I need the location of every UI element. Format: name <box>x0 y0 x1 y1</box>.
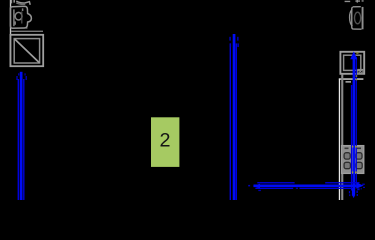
icon U2 (top-right device, cropped by top edge) <box>345 0 364 29</box>
middle blue bundle: wire (thin left line) <box>230 43 231 200</box>
small dash below west arrowhead <box>258 190 261 191</box>
horizontal bundle: wire (thin top segment 1) <box>257 182 294 183</box>
gray lifeline (right, vertical) <box>341 74 343 200</box>
box with diagonal (left component symbol) <box>10 35 43 66</box>
left blue bundle: wire (thin right line) <box>23 79 24 200</box>
detached dash left of west arrowhead <box>248 185 250 187</box>
right blue bundle: wire (thin right line) <box>356 57 357 189</box>
horizontal bundle: wire (thin bottom segment 1) <box>255 188 293 189</box>
left arrowhead inner side marks <box>18 73 19 75</box>
right lower box (grid component, gray filled) <box>342 146 364 174</box>
svg-text:2: 2 <box>159 130 170 152</box>
separator line under icon U1 <box>11 31 43 32</box>
yellow fringe at lower box top edge crossing <box>352 146 353 148</box>
left blue bundle: wire (thin left line) <box>18 79 20 200</box>
right bundle down arrowhead barb dashes <box>349 191 350 193</box>
right blue bundle: wire (thin left line) <box>351 85 352 191</box>
horizontal bundle west filled arrowhead <box>253 184 260 189</box>
right blue bundle: wire (thick shaft) <box>353 57 356 195</box>
icon U1 (top-left device, cropped by top edge) <box>10 0 31 29</box>
right bundle down arrow tip <box>352 188 355 196</box>
left blue bundle: wire (thick shaft, arrow up) <box>20 72 23 200</box>
horizontal blue bundle: wire (thick middle) <box>254 185 357 188</box>
bright left edge line (top-left column) <box>10 0 11 67</box>
yellow speck near upper box arrowhead <box>356 52 358 54</box>
middle arrowhead lower side dashes <box>230 43 231 47</box>
yellow fringe at lower box bottom edge crossing <box>352 172 353 174</box>
white bracket horizontal line <box>339 78 364 79</box>
yellow specks at white line crossing <box>356 75 358 77</box>
horizontal bundle: wire (thin top segment 2) <box>325 182 359 183</box>
middle arrowhead upper barb dashes <box>229 37 230 41</box>
right bundle filled arrowhead (up, into upper box) <box>350 51 357 59</box>
horizontal bundle: wire (thin bottom dash) <box>296 188 298 189</box>
left arrowhead outer barb dashes <box>16 76 17 80</box>
white bracket vertical line <box>339 78 340 200</box>
right upper box (double border) <box>340 52 364 74</box>
horizontal bundle east filled arrowhead <box>357 183 364 189</box>
white dash below bracket <box>346 81 352 82</box>
green activation box node 2 <box>151 117 179 167</box>
middle blue bundle: wire (thin right line) <box>236 43 237 200</box>
middle blue bundle: wire (thick shaft, arrow up) <box>233 34 236 200</box>
horizontal bundle: wire (thin bottom segment 2) <box>300 188 353 189</box>
